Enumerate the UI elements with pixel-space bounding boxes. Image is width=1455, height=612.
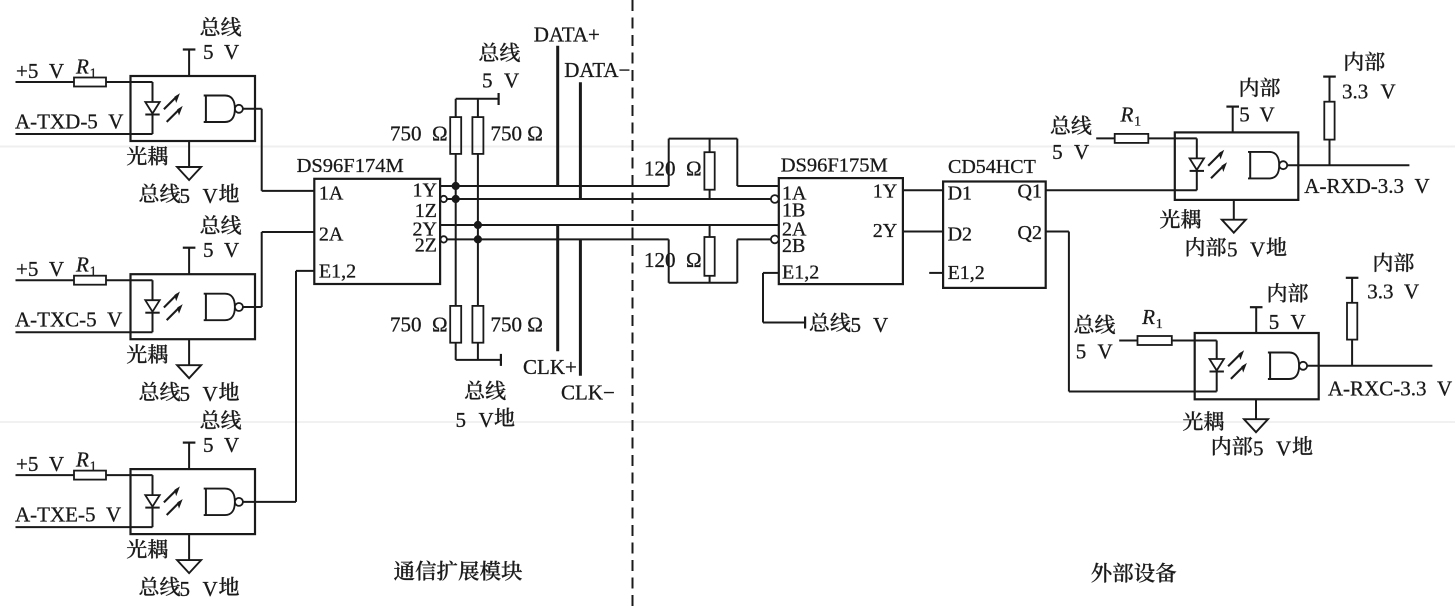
- svg-text:5 V: 5 V: [203, 433, 239, 457]
- LED (RX1): [1196, 138, 1198, 158]
- svg-text:E1,2: E1,2: [319, 261, 356, 283]
- svg-text:A-RXC-3.3 V: A-RXC-3.3 V: [1328, 377, 1452, 401]
- svg-text:R: R: [75, 253, 89, 277]
- wire 2Y to D2: [903, 231, 943, 233]
- svg-text:+5 V: +5 V: [16, 59, 64, 83]
- svg-text:750 Ω: 750 Ω: [390, 313, 448, 337]
- svg-text:V: V: [873, 313, 888, 337]
- wire pullup left vertical: [455, 154, 457, 306]
- svg-text:1: 1: [1156, 317, 1163, 332]
- wire A-TXC input to LED cathode: [16, 331, 153, 333]
- svg-text:5: 5: [456, 408, 467, 432]
- wire 2Y net: [440, 224, 779, 226]
- ground of opto TX3: [188, 534, 190, 560]
- receiver chip U2 DS96F175M: [779, 178, 903, 284]
- svg-text:1: 1: [90, 265, 97, 280]
- bus 5V rail top: [456, 98, 499, 100]
- label 外部设备: [1091, 563, 1111, 583]
- driver chip U1 DS96F174M: [314, 179, 440, 284]
- svg-text:A-TXC-5 V: A-TXC-5 V: [15, 308, 122, 332]
- svg-text:E1,2: E1,2: [948, 262, 985, 284]
- resistor 750 top-right: [477, 99, 479, 117]
- svg-text:V: V: [1260, 103, 1275, 127]
- node dot 1Y/pullup: [453, 183, 459, 189]
- svg-text:CLK−: CLK−: [561, 381, 615, 405]
- svg-text:3.3: 3.3: [1342, 79, 1368, 103]
- svg-text:750 Ω: 750 Ω: [491, 122, 543, 146]
- svg-text:V: V: [1250, 238, 1265, 262]
- svg-text:120 Ω: 120 Ω: [644, 248, 702, 272]
- wire A-TXD input to LED cathode: [16, 133, 153, 135]
- dashed module boundary: [632, 0, 634, 612]
- svg-text:2Z: 2Z: [415, 234, 437, 256]
- svg-text:2Y: 2Y: [873, 220, 897, 242]
- output wire A-RXC (RX2): [1307, 365, 1432, 367]
- resistor 750 top-left: [455, 99, 457, 117]
- optocoupler U-TX1 box: [131, 76, 256, 141]
- wire 1Z net: [441, 196, 447, 202]
- bus 5V ground rail bottom: [455, 343, 457, 360]
- svg-text:5: 5: [1269, 310, 1280, 334]
- label 光耦 RX1: [1160, 209, 1180, 228]
- svg-text:1: 1: [90, 67, 97, 82]
- svg-text:V: V: [203, 577, 218, 601]
- output wire A-RXD (RX1): [1287, 164, 1409, 166]
- svg-text:DS96F174M: DS96F174M: [297, 155, 404, 177]
- resistor R1 (TX3): [74, 471, 106, 480]
- svg-text:5: 5: [180, 577, 191, 601]
- svg-text:+5 V: +5 V: [16, 257, 64, 281]
- wire bus5V through R1 to LED (RX1): [1096, 137, 1115, 139]
- ground RX2: [1255, 399, 1257, 419]
- svg-text:5: 5: [1076, 340, 1087, 364]
- wire pullup right vertical: [477, 154, 479, 306]
- label 通信扩展模块: [394, 561, 414, 580]
- resistor 120 bottom: [704, 237, 714, 276]
- node dot 2Y: [475, 222, 481, 228]
- resistor 750 bottom-right: [472, 306, 483, 343]
- photo-detector gate TX1: [204, 96, 235, 123]
- svg-text:750 Ω: 750 Ω: [491, 313, 543, 337]
- optocoupler U-TX2 box: [131, 274, 256, 339]
- node dot 2Z: [475, 236, 481, 242]
- ground of opto TX2: [188, 339, 190, 365]
- svg-text:1Y: 1Y: [873, 181, 897, 203]
- svg-text:V: V: [479, 408, 494, 432]
- resistor R1 (RX1): [1115, 134, 1149, 143]
- svg-text:5 V: 5 V: [203, 238, 239, 262]
- photo-detector gate RX2: [1268, 353, 1299, 380]
- ground of opto TX1: [188, 141, 190, 167]
- bus 5V supply bar of opto TX1: [183, 48, 196, 50]
- bus 5V supply bar of opto TX3: [183, 442, 196, 444]
- svg-text:5: 5: [1052, 140, 1063, 164]
- wire opto TX3 output to E1,2: [243, 501, 296, 503]
- LED of opto TX1: [152, 82, 154, 102]
- svg-text:A-RXD-3.3 V: A-RXD-3.3 V: [1304, 174, 1429, 198]
- svg-text:5: 5: [482, 69, 493, 93]
- svg-text:DATA−: DATA−: [564, 58, 630, 82]
- light arrows TX3: [164, 489, 177, 502]
- svg-text:DATA+: DATA+: [534, 23, 600, 47]
- light arrows TX1: [164, 96, 177, 109]
- svg-text:R: R: [1120, 103, 1134, 127]
- svg-text:1A: 1A: [319, 183, 344, 205]
- wire Q1 to LED cathode (RX1): [1046, 189, 1197, 191]
- svg-text:5: 5: [1227, 238, 1238, 262]
- internal 5V supply RX2: [1250, 306, 1263, 308]
- svg-text:5: 5: [1239, 103, 1250, 127]
- svg-text:1: 1: [1134, 115, 1141, 130]
- svg-text:DS96F175M: DS96F175M: [781, 155, 888, 177]
- optocoupler U-RX2 box: [1195, 333, 1319, 399]
- svg-text:D2: D2: [948, 224, 972, 246]
- bus 5V supply bar of opto TX2: [183, 247, 196, 249]
- wire E1,2 to bus5V: [763, 272, 779, 274]
- svg-text:5: 5: [851, 313, 862, 337]
- pullup 3.3V resistor RX1: [1323, 75, 1336, 77]
- light arrows RX1: [1208, 153, 1221, 166]
- resistor R1 (TX1): [74, 78, 106, 87]
- node CLK-: [579, 239, 582, 375]
- svg-text:5: 5: [180, 184, 191, 208]
- svg-text:A-TXE-5 V: A-TXE-5 V: [15, 502, 121, 526]
- svg-text:5: 5: [1253, 437, 1264, 461]
- optocoupler U-RX1 box: [1175, 132, 1299, 200]
- label 光耦 TX2: [127, 344, 147, 363]
- label 光耦 TX1: [127, 146, 147, 165]
- svg-text:E1,2: E1,2: [782, 261, 819, 283]
- svg-text:V: V: [1381, 79, 1396, 103]
- svg-text:CLK+: CLK+: [523, 355, 577, 379]
- pullup 3.3V resistor RX2: [1346, 277, 1359, 279]
- ground RX1: [1233, 200, 1235, 220]
- pin 2B bubble: [771, 236, 779, 244]
- svg-text:V: V: [203, 184, 218, 208]
- wire A-TXE input to LED cathode: [16, 526, 153, 528]
- pin 1B bubble: [771, 195, 779, 203]
- svg-text:A-TXD-5 V: A-TXD-5 V: [15, 109, 123, 133]
- optocoupler U-TX3 box: [131, 469, 256, 534]
- node dot 1Z/pulldown: [453, 196, 459, 202]
- wire +5V input to LED anode (TX3): [16, 474, 75, 476]
- resistor 750 bottom-left: [450, 306, 461, 343]
- wire bus5V through R1 to LED (RX2): [1119, 340, 1137, 342]
- resistor R1 (RX2): [1138, 336, 1172, 345]
- wire opto TX2 output to 2A: [243, 306, 262, 308]
- svg-text:3.3: 3.3: [1367, 280, 1393, 304]
- node CLK+: [556, 225, 559, 351]
- wire +5V input to LED anode (TX2): [16, 279, 75, 281]
- svg-text:1: 1: [90, 460, 97, 475]
- svg-text:V: V: [1074, 140, 1089, 164]
- LED of opto TX3: [152, 475, 154, 495]
- internal 5V supply RX1: [1226, 105, 1239, 107]
- svg-text:R: R: [75, 448, 89, 472]
- resistor 120 top: [704, 152, 714, 190]
- svg-text:750 Ω: 750 Ω: [390, 122, 448, 146]
- wire 1Y net: [440, 185, 669, 187]
- wire 2Z net: [441, 236, 447, 242]
- light arrows TX2: [164, 294, 177, 307]
- svg-text:120 Ω: 120 Ω: [644, 157, 702, 181]
- photo-detector gate TX2: [204, 294, 235, 321]
- photo-detector gate RX1: [1248, 152, 1279, 179]
- svg-text:V: V: [203, 382, 218, 406]
- svg-text:+5 V: +5 V: [16, 452, 64, 476]
- svg-text:R: R: [1141, 305, 1155, 329]
- svg-text:R: R: [75, 55, 89, 79]
- svg-text:Q1: Q1: [1018, 181, 1042, 203]
- level shifter U3 CD54HCT: [943, 182, 1046, 288]
- svg-text:2A: 2A: [319, 224, 344, 246]
- wire opto TX1 output to 1A: [243, 108, 262, 110]
- svg-text:5: 5: [180, 382, 191, 406]
- photo-detector gate TX3: [204, 489, 235, 515]
- svg-text:V: V: [504, 69, 519, 93]
- LED of opto TX2: [152, 280, 154, 300]
- wire 1Y to D1: [903, 189, 943, 191]
- svg-text:V: V: [1098, 340, 1113, 364]
- svg-text:Q2: Q2: [1018, 222, 1042, 244]
- wire +5V input to LED anode (TX1): [16, 81, 75, 83]
- label 光耦 TX3: [127, 539, 147, 558]
- svg-text:1Y: 1Y: [413, 180, 437, 202]
- svg-text:CD54HCT: CD54HCT: [948, 156, 1036, 178]
- svg-text:2B: 2B: [782, 235, 805, 257]
- svg-text:5 V: 5 V: [203, 40, 239, 64]
- svg-text:V: V: [1291, 310, 1306, 334]
- label 光耦 RX2: [1183, 411, 1203, 430]
- svg-text:V: V: [1404, 280, 1419, 304]
- wire Q2 to LED cathode (RX2): [1046, 231, 1069, 233]
- stub E1,2 (HCT): [929, 272, 943, 274]
- svg-text:V: V: [1276, 437, 1291, 461]
- LED (RX2): [1216, 341, 1218, 360]
- svg-text:D1: D1: [948, 183, 972, 205]
- light arrows RX2: [1228, 353, 1241, 366]
- resistor R1 (TX2): [74, 276, 106, 285]
